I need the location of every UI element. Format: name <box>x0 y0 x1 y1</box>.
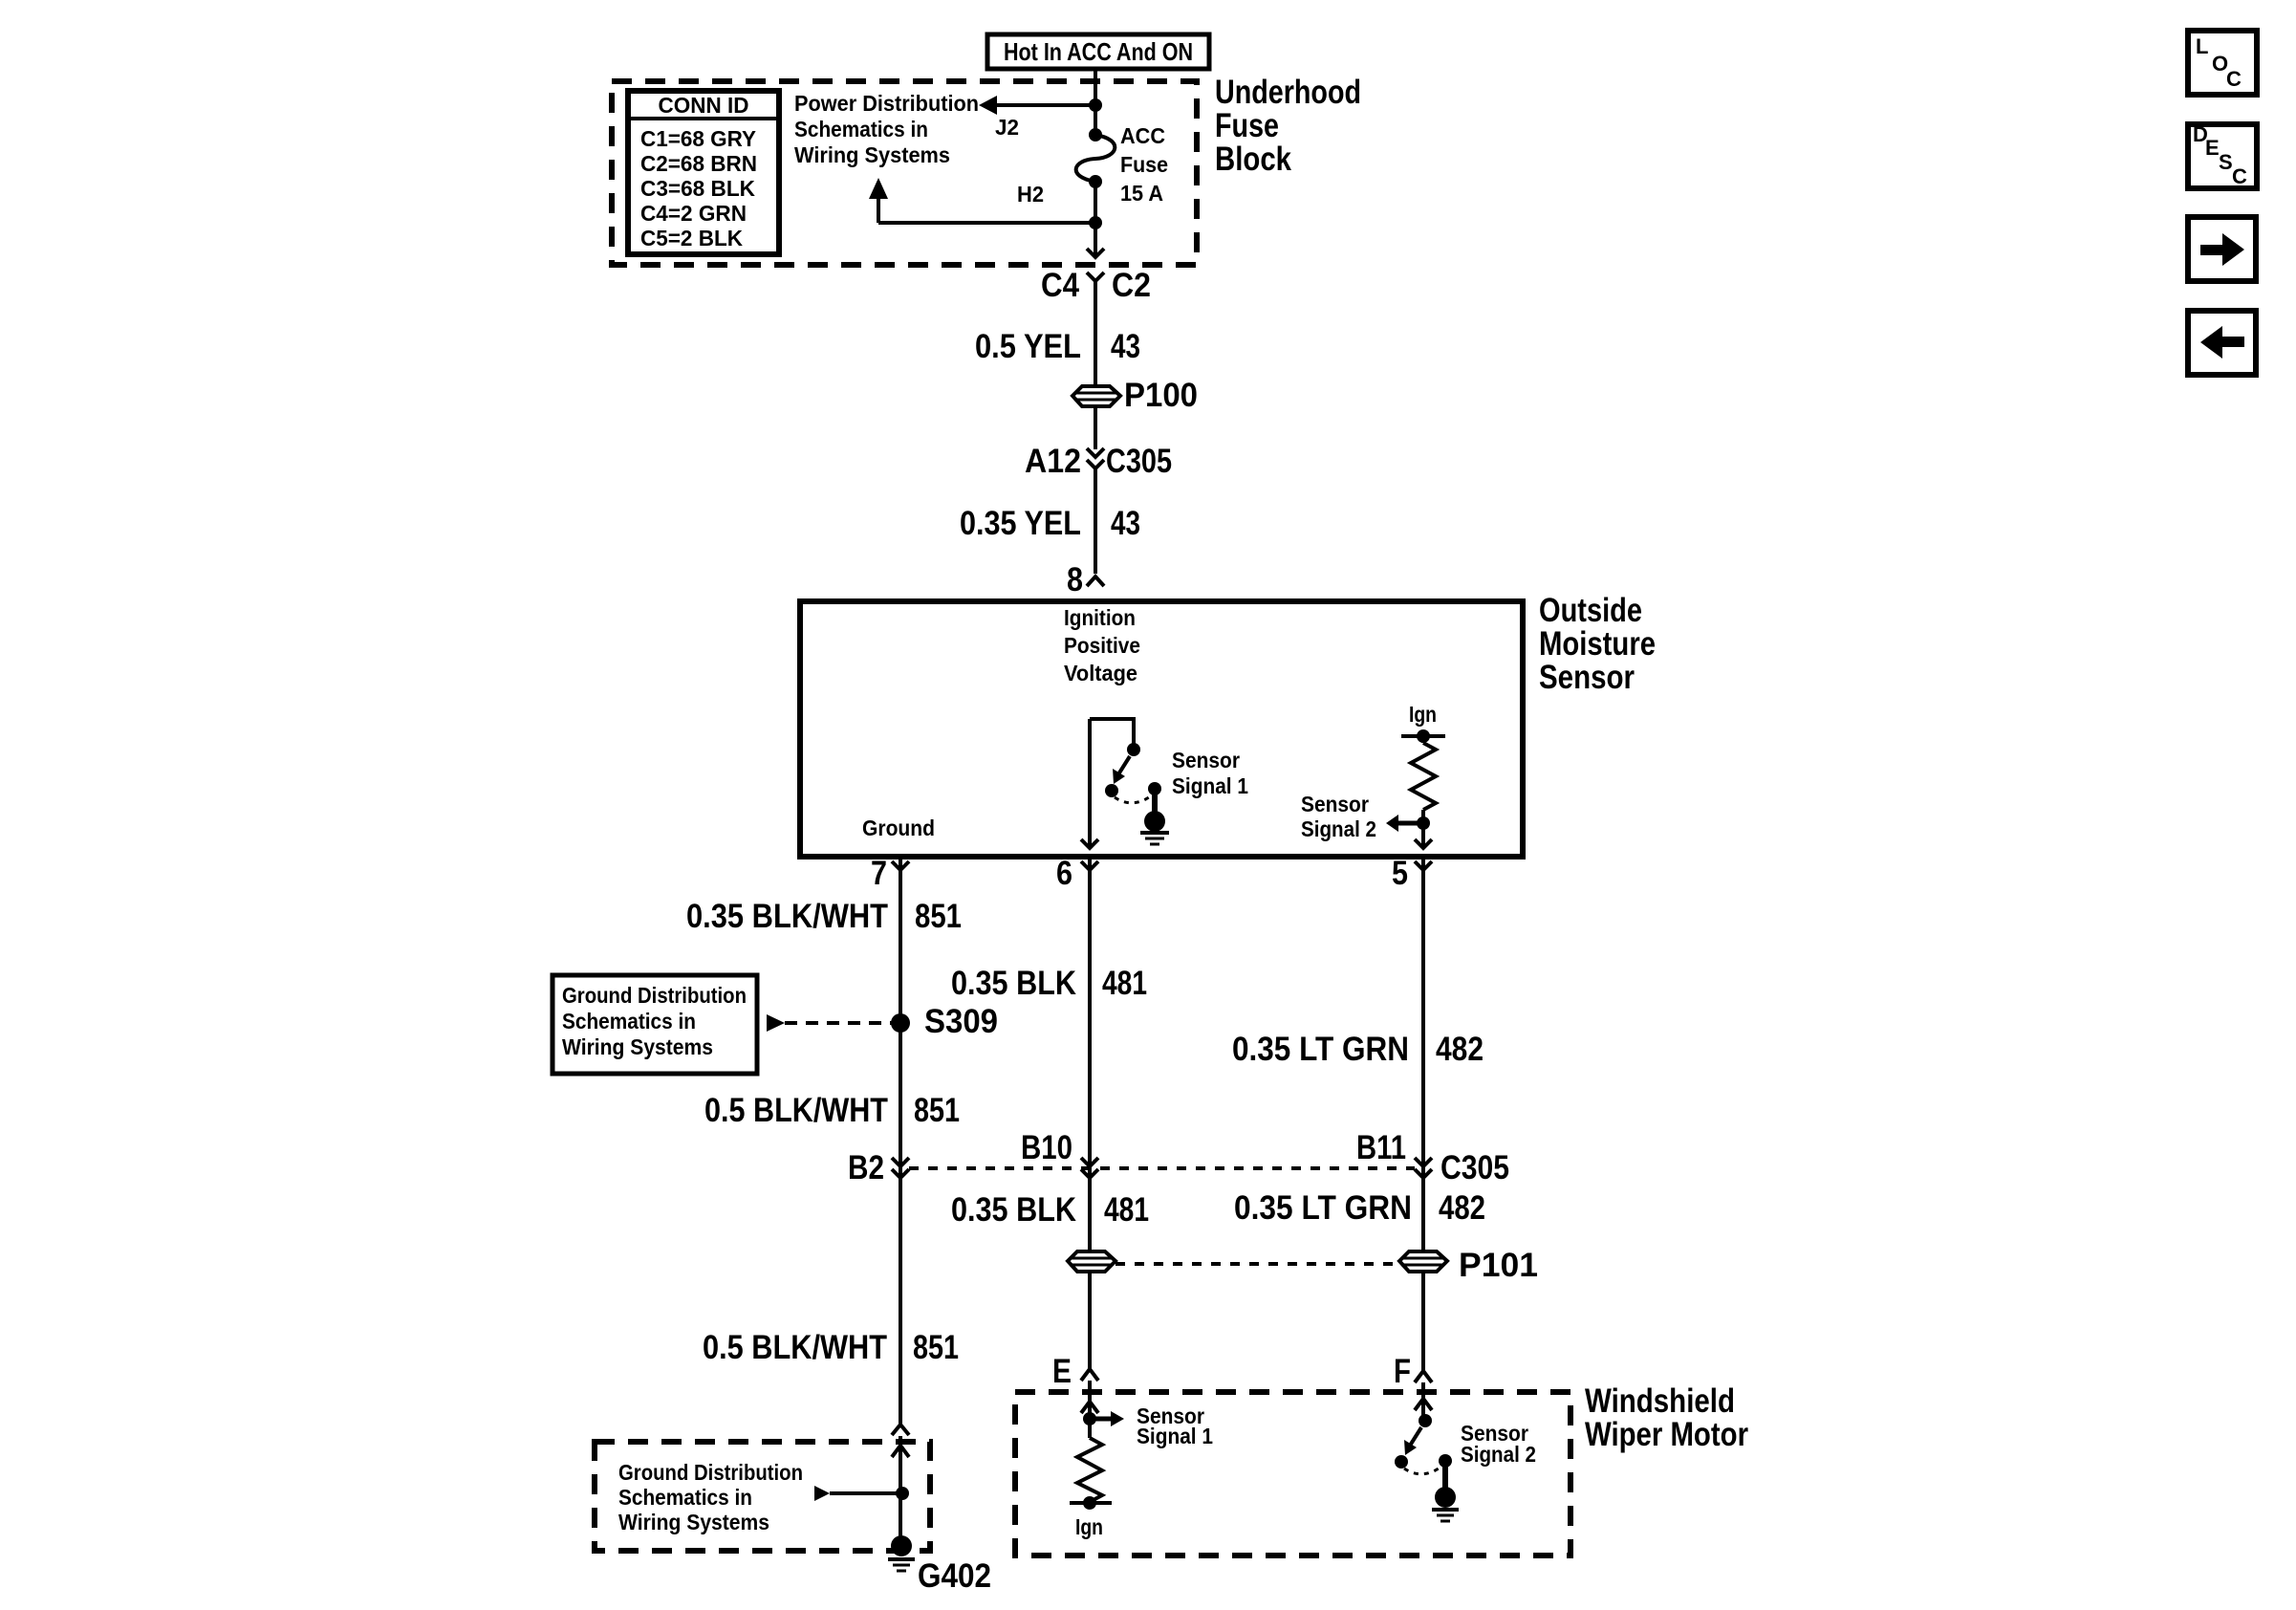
svg-text:Schematics in: Schematics in <box>794 117 928 141</box>
svg-text:ACC: ACC <box>1120 123 1165 148</box>
svg-text:Underhood: Underhood <box>1215 74 1361 111</box>
svg-text:C2: C2 <box>1112 267 1151 304</box>
svg-text:6: 6 <box>1056 855 1072 892</box>
svg-text:15 A: 15 A <box>1120 181 1163 206</box>
svg-text:Ground Distribution: Ground Distribution <box>562 983 747 1008</box>
svg-text:Signal 1: Signal 1 <box>1137 1424 1213 1448</box>
svg-text:Fuse: Fuse <box>1215 107 1279 144</box>
svg-text:B2: B2 <box>848 1149 884 1186</box>
svg-text:851: 851 <box>913 1329 959 1366</box>
svg-text:J2: J2 <box>995 115 1019 140</box>
svg-text:481: 481 <box>1104 1191 1149 1229</box>
svg-text:Fuse: Fuse <box>1120 152 1168 177</box>
svg-text:C4=2 GRN: C4=2 GRN <box>640 201 747 226</box>
svg-text:S309: S309 <box>924 1003 998 1040</box>
svg-text:Signal 1: Signal 1 <box>1172 773 1248 798</box>
svg-text:E: E <box>2205 136 2220 160</box>
svg-text:7: 7 <box>871 855 887 892</box>
svg-text:C305: C305 <box>1106 443 1172 480</box>
svg-text:0.35 BLK: 0.35 BLK <box>951 965 1076 1002</box>
svg-text:G402: G402 <box>918 1557 991 1595</box>
svg-text:0.5 YEL: 0.5 YEL <box>975 328 1081 365</box>
svg-text:Wiring Systems: Wiring Systems <box>618 1510 769 1534</box>
svg-text:C4: C4 <box>1041 267 1079 304</box>
svg-text:C: C <box>2232 164 2247 188</box>
svg-text:Voltage: Voltage <box>1064 661 1137 685</box>
svg-text:Block: Block <box>1215 141 1291 178</box>
svg-text:F: F <box>1394 1353 1411 1390</box>
svg-text:Signal 2: Signal 2 <box>1301 816 1376 841</box>
svg-text:Schematics in: Schematics in <box>562 1009 696 1033</box>
svg-text:C2=68 BRN: C2=68 BRN <box>640 151 757 176</box>
svg-text:P101: P101 <box>1459 1247 1538 1284</box>
svg-text:0.35 BLK: 0.35 BLK <box>951 1191 1076 1229</box>
svg-text:Windshield: Windshield <box>1585 1382 1735 1420</box>
svg-text:Positive: Positive <box>1064 633 1140 658</box>
svg-text:43: 43 <box>1111 328 1140 365</box>
svg-text:B10: B10 <box>1021 1129 1072 1166</box>
svg-text:0.35 LT GRN: 0.35 LT GRN <box>1234 1189 1412 1227</box>
svg-text:Ign: Ign <box>1409 702 1437 727</box>
svg-text:Signal 2: Signal 2 <box>1461 1442 1536 1467</box>
svg-text:Moisture: Moisture <box>1539 625 1656 663</box>
svg-text:5: 5 <box>1392 855 1408 892</box>
svg-text:C5=2 BLK: C5=2 BLK <box>640 226 743 250</box>
svg-text:Schematics in: Schematics in <box>618 1485 752 1510</box>
svg-text:851: 851 <box>914 1092 960 1129</box>
svg-text:Wiper Motor: Wiper Motor <box>1585 1416 1748 1453</box>
svg-text:0.5 BLK/WHT: 0.5 BLK/WHT <box>703 1329 887 1366</box>
svg-text:Sensor: Sensor <box>1172 748 1240 772</box>
svg-text:P100: P100 <box>1124 377 1198 414</box>
svg-text:8: 8 <box>1067 561 1083 598</box>
svg-text:0.35 YEL: 0.35 YEL <box>960 505 1081 542</box>
svg-text:482: 482 <box>1439 1189 1485 1227</box>
svg-text:Ign: Ign <box>1075 1514 1103 1539</box>
svg-text:43: 43 <box>1111 505 1140 542</box>
svg-text:Sensor: Sensor <box>1301 792 1369 816</box>
svg-text:481: 481 <box>1102 965 1147 1002</box>
svg-text:S: S <box>2219 150 2233 174</box>
svg-text:Ground Distribution: Ground Distribution <box>618 1460 803 1485</box>
svg-text:C1=68 GRY: C1=68 GRY <box>640 126 756 151</box>
svg-text:Sensor: Sensor <box>1539 659 1635 696</box>
svg-text:Wiring Systems: Wiring Systems <box>562 1034 713 1059</box>
svg-text:851: 851 <box>915 898 962 935</box>
svg-text:L: L <box>2196 34 2208 58</box>
svg-text:482: 482 <box>1436 1031 1484 1068</box>
svg-text:0.35 LT GRN: 0.35 LT GRN <box>1232 1031 1409 1068</box>
svg-text:0.5 BLK/WHT: 0.5 BLK/WHT <box>704 1092 888 1129</box>
svg-text:A12: A12 <box>1025 443 1081 480</box>
svg-text:0.35 BLK/WHT: 0.35 BLK/WHT <box>686 898 888 935</box>
svg-text:C3=68 BLK: C3=68 BLK <box>640 176 755 201</box>
svg-text:B11: B11 <box>1356 1129 1406 1166</box>
svg-text:CONN ID: CONN ID <box>659 93 749 118</box>
svg-text:Wiring Systems: Wiring Systems <box>794 142 950 167</box>
svg-text:C: C <box>2226 67 2242 91</box>
svg-text:H2: H2 <box>1017 182 1044 207</box>
svg-text:Power Distribution: Power Distribution <box>794 91 979 116</box>
svg-text:Ground: Ground <box>862 816 935 840</box>
svg-text:C305: C305 <box>1440 1149 1509 1186</box>
svg-text:E: E <box>1052 1353 1072 1390</box>
svg-text:Outside: Outside <box>1539 592 1642 629</box>
svg-text:Ignition: Ignition <box>1064 605 1136 630</box>
svg-text:Hot In ACC And ON: Hot In ACC And ON <box>1004 37 1193 66</box>
